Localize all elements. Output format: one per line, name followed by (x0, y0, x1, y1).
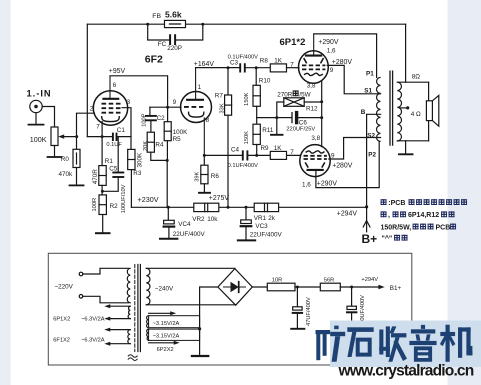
tube U1b 6F2 triode section (181, 68, 212, 156)
svg-text:R2: R2 (110, 203, 119, 210)
left margin band (0, 0, 11, 385)
node: cathode/C6 junction (320, 116, 323, 119)
svg-text:C4: C4 (231, 146, 240, 153)
capacitor VC3 22UF/400V (245, 207, 247, 220)
svg-text:100P: 100P (141, 113, 147, 126)
wire: cathode riser between tubes (321, 81, 323, 147)
wire: cathode line pin7 down (101, 122, 103, 166)
node: FB right junction (201, 23, 204, 26)
svg-text:7: 7 (290, 61, 294, 68)
transformer core dashed (134, 265, 136, 352)
wire: S1 tap stub (378, 93, 380, 95)
svg-text:C5: C5 (109, 166, 118, 173)
svg-text:47UF/400V: 47UF/400V (306, 297, 312, 326)
svg-text:1: 1 (198, 84, 202, 91)
wire: 10R to 56R (295, 286, 320, 288)
wire: +230V rail (131, 206, 366, 208)
svg-text:1,6: 1,6 (327, 47, 336, 54)
transformer T2 HV secondary winding (146, 268, 150, 304)
capacitor C2 100P (149, 107, 151, 115)
svg-text:100R: 100R (92, 198, 98, 212)
svg-text:1K: 1K (274, 145, 283, 152)
wire: pot wiper arm (62, 136, 77, 138)
svg-text:22UF/400V: 22UF/400V (250, 232, 283, 239)
svg-text:100UF/10V: 100UF/10V (121, 184, 127, 213)
svg-text:7: 7 (96, 124, 100, 131)
wire: HV bottom lead (146, 304, 235, 306)
svg-text:R12: R12 (306, 105, 318, 112)
svg-text:300K: 300K (136, 152, 143, 168)
resistor R9 1K (270, 151, 286, 159)
wire: plate rail to P1 (314, 34, 377, 78)
wire: screen to S1 (327, 65, 378, 93)
wire: R3 bottom to +230V rail (130, 170, 132, 208)
note text line 3 (381, 224, 457, 232)
svg-text:1.-IN: 1.-IN (27, 88, 52, 98)
node: 4 ohm tap dot (406, 106, 409, 109)
ground (PSU) (192, 355, 208, 357)
node: heater centre tap (198, 327, 201, 330)
capacitor 120UF/400V (351, 287, 353, 306)
wire: R2 bottom (102, 215, 104, 233)
svg-text:56R: 56R (324, 278, 334, 284)
svg-text:www.crystalradio.cn: www.crystalradio.cn (338, 363, 474, 380)
resistor 56R (320, 283, 340, 291)
transformer T2 heater winding 1 (128, 306, 130, 318)
wire: 3.15V arrow top (149, 312, 172, 314)
svg-text::PCB: :PCB (388, 200, 405, 207)
watermark logo char KUANG (316, 326, 346, 362)
svg-text:R0: R0 (61, 156, 70, 163)
svg-text:P1: P1 (366, 71, 374, 78)
ground (VC4) (160, 238, 177, 240)
wire: R0 bottom (76, 168, 78, 185)
speaker LS (428, 82, 430, 141)
svg-text:R6: R6 (211, 173, 220, 180)
node: VC4 junction (167, 206, 170, 209)
svg-text:6P1X2: 6P1X2 (53, 317, 70, 323)
wire: R12 leads (277, 102, 322, 118)
wire: ground drop (276, 118, 278, 134)
svg-text:/5W: /5W (299, 91, 310, 98)
note text line 4 (382, 235, 408, 243)
svg-text:B+: B+ (362, 232, 378, 246)
pin 8 cathode lead (203, 117, 205, 155)
svg-text:470R: 470R (92, 169, 99, 185)
grid dashes (184, 106, 203, 108)
node: FB left junction (146, 23, 149, 26)
svg-text:2: 2 (90, 106, 94, 113)
node: VC3 junction (245, 206, 248, 209)
resistor R8 1K (270, 64, 286, 72)
wire: 3.15V arrow bottom (149, 342, 176, 344)
tube V2 lower 6P1 (300, 145, 330, 177)
svg-text:VC4: VC4 (178, 221, 191, 228)
ground (R0) (70, 184, 84, 186)
ground (jack) (35, 113, 37, 124)
svg-text:10k: 10k (207, 216, 218, 223)
svg-text:6F2: 6F2 (145, 54, 163, 66)
svg-text:20K: 20K (143, 141, 149, 151)
resistor FB 5.6k (165, 20, 186, 27)
wire: R7 column down to +275V rail (227, 115, 229, 207)
resistor R6 39K (203, 155, 205, 165)
wire: cathodyne output line (204, 154, 300, 156)
wire: bridge + output (252, 286, 267, 288)
box label 3.15V winding A (149, 316, 200, 328)
resistor 10R (267, 283, 295, 291)
svg-text:+230V: +230V (138, 195, 159, 204)
svg-text:5.6k: 5.6k (165, 9, 182, 19)
wire: B1+ arrow (378, 285, 384, 289)
wire: FB/cathode/C1 lead (87, 136, 131, 138)
svg-text:3,8: 3,8 (307, 83, 316, 90)
wire: R6 bottom (203, 184, 205, 192)
screen dashes row (302, 64, 325, 66)
wire: S2 tap stub (378, 137, 380, 139)
node: 47UF junction (296, 286, 299, 289)
svg-text:~6.3V/2A: ~6.3V/2A (81, 317, 105, 323)
svg-text:220UF/25V: 220UF/25V (286, 127, 315, 133)
screen dashes row (304, 158, 327, 160)
svg-text:1,6: 1,6 (302, 181, 311, 188)
svg-text:4 Ω: 4 Ω (411, 111, 421, 118)
wire: plate to P2 (316, 141, 379, 187)
svg-text:8: 8 (206, 117, 210, 124)
tube U1a 6F2 pentode section (93, 76, 127, 125)
svg-text:0.1UF/400V: 0.1UF/400V (228, 163, 259, 169)
svg-text:C2: C2 (157, 115, 166, 122)
core (390, 71, 393, 146)
svg-text:+280V: +280V (332, 59, 353, 66)
svg-text:3,8: 3,8 (311, 135, 320, 142)
svg-text:R8: R8 (260, 57, 269, 64)
svg-text:+95V: +95V (109, 68, 126, 75)
svg-text:R3: R3 (133, 170, 142, 177)
node: R11/C4/R9 junction (255, 154, 258, 157)
node: R4/R5 bottom junction (166, 159, 169, 162)
svg-text:10R: 10R (272, 277, 282, 283)
node: R6 top junction (203, 154, 206, 157)
cathode squiggle (306, 151, 325, 153)
resistor R4 20K (147, 132, 154, 152)
svg-text:R1: R1 (105, 158, 114, 165)
resistor R10 150K (255, 68, 257, 86)
svg-text:S2: S2 (367, 133, 375, 140)
svg-text:+294V: +294V (337, 211, 358, 218)
svg-text:39K: 39K (195, 171, 201, 181)
wire: C6 lead left (277, 117, 292, 119)
potentiometer 100K (51, 127, 58, 146)
svg-text:1K: 1K (274, 58, 283, 65)
svg-text:C1: C1 (117, 127, 126, 134)
node: B+ rail junction (365, 205, 368, 208)
svg-text:6P1*2: 6P1*2 (280, 37, 306, 48)
svg-text:VR1: VR1 (254, 215, 267, 222)
note text line 1 (381, 199, 468, 207)
wire: R5 bottom to +230V rail (166, 141, 168, 161)
pin 1,6 plate stub (313, 34, 315, 55)
capacitor FC 220P (170, 35, 175, 44)
node: cathode C1 junction (101, 135, 104, 138)
node: cathode/R12 junction (320, 100, 323, 103)
svg-text:C6: C6 (299, 119, 308, 126)
watermark logo char JI (440, 325, 473, 362)
transformer T2 3.15V winding A coil (147, 316, 149, 328)
wire: B+ drop with arrow (366, 207, 368, 232)
resistor R1 470R (99, 166, 106, 186)
svg-text:~3.15V/2A: ~3.15V/2A (153, 321, 180, 327)
svg-text:150K: 150K (244, 131, 250, 144)
node: wiper junction (75, 135, 78, 138)
svg-text:+275V: +275V (209, 195, 230, 202)
svg-text:9: 9 (173, 99, 177, 106)
pin 6 plate stub (109, 76, 111, 99)
svg-text:2k: 2k (268, 215, 276, 222)
resistor R12 270R/5W (284, 98, 304, 107)
wire: bridge negative to ground (200, 287, 218, 355)
transformer T2 heater winding 2 (128, 330, 130, 344)
terminal AC line top (79, 272, 83, 276)
grid dashes row1 (102, 103, 121, 105)
svg-text:7: 7 (290, 149, 294, 156)
watermark logo char SHOU (379, 326, 407, 361)
wire: HV top lead (146, 267, 235, 269)
ground (R6) (199, 192, 210, 194)
svg-text:S1: S1 (364, 88, 372, 95)
svg-text:VC3: VC3 (255, 223, 268, 230)
svg-text:+290V: +290V (318, 39, 339, 46)
beam plates (304, 58, 324, 63)
svg-text:+294V: +294V (361, 277, 378, 283)
ground (cathode network) (271, 134, 283, 136)
beam plates (305, 162, 325, 167)
plate bar (305, 55, 322, 57)
capacitor 47UF/400V (296, 287, 298, 307)
transformer T2 primary winding (127, 268, 130, 302)
wire: jack to pot (42, 107, 54, 128)
pin 1 plate stub (195, 68, 197, 100)
wire: secondary bottom (397, 140, 428, 142)
svg-text:VR2: VR2 (192, 216, 205, 223)
wire: down to +230V rail (166, 160, 168, 207)
svg-text:R5: R5 (173, 136, 182, 143)
svg-text:~3.15V/2A: ~3.15V/2A (153, 334, 180, 340)
wire: R4 bottom to +230V node (151, 152, 167, 160)
capacitor C3 0.1UF/400V (240, 64, 245, 71)
bridge rectifier D1 (218, 269, 252, 306)
core squiggle symbol (128, 355, 137, 361)
watermark background block (330, 321, 481, 368)
resistor R3 300K (128, 149, 135, 169)
note text line 2 (381, 211, 455, 219)
svg-text:PCB: PCB (436, 224, 451, 231)
svg-text:R11: R11 (262, 127, 274, 134)
plate bar (102, 98, 119, 100)
grid dashes row (302, 68, 325, 70)
svg-text:100K: 100K (30, 135, 47, 144)
primary winding (377, 77, 381, 141)
wire: feedback drop from top to 8ohm tap (405, 24, 407, 82)
terminal AC line bottom (79, 295, 83, 299)
svg-text:P2: P2 (368, 152, 376, 159)
node: +275V rail junction (227, 206, 230, 209)
capacitor C1 0.1UF (113, 134, 117, 140)
resistor R11 150K (253, 124, 260, 144)
svg-text:+290V: +290V (317, 180, 338, 187)
transformer T1 output (377, 71, 402, 146)
svg-text:6P2X2: 6P2X2 (157, 347, 174, 353)
cathode cup (189, 112, 204, 118)
grid dashes row2 (102, 107, 121, 109)
ground (R2) (96, 232, 110, 234)
wire: +95V rail (110, 76, 168, 107)
wire: AC leads (83, 268, 129, 274)
wire: R11 bottom (256, 145, 258, 156)
resistor R5 100K (167, 107, 169, 122)
watermark logo char SHI (347, 327, 373, 357)
potentiometer VR2 100k (194, 203, 219, 211)
wire: pin3 screen column to R3 (122, 108, 131, 150)
secondary winding (397, 82, 401, 141)
node: R1 bottom junction (101, 185, 103, 195)
right margin band (448, 0, 481, 385)
ground (pot) (48, 156, 62, 158)
svg-text:0.1UF: 0.1UF (106, 142, 122, 148)
svg-text:150R/5W,: 150R/5W, (381, 224, 412, 231)
capacitor C6 220UF/25V (291, 113, 293, 123)
node: C3/R8/R10 junction (255, 66, 258, 69)
cathode squiggle (304, 73, 323, 75)
wire: B centre tap (367, 114, 381, 207)
svg-text:6: 6 (113, 82, 117, 89)
node: 120UF junction (350, 286, 353, 289)
wire: R10 bottom to R11 top (256, 106, 258, 124)
svg-text:B: B (361, 109, 366, 116)
wire: global feedback top run (87, 23, 405, 25)
wire: screen to S2 (329, 138, 378, 160)
svg-text:9: 9 (331, 152, 335, 159)
wire: divider mid tap (257, 117, 277, 119)
box label 3.15V winding B (149, 329, 200, 340)
svg-text:470k: 470k (59, 171, 74, 178)
wire: secondary top 8ohm line (397, 81, 428, 83)
power supply enclosure box (48, 253, 412, 365)
wire: 4 ohm tap (400, 107, 408, 109)
svg-text:270R: 270R (277, 91, 293, 98)
svg-text:150K: 150K (244, 92, 250, 105)
svg-text:+164V: +164V (194, 61, 215, 68)
svg-text:9: 9 (330, 67, 334, 74)
transformer T2 3.15V winding B coil (147, 329, 149, 340)
resistor R0 470k (73, 149, 80, 167)
node: plate/R5 junction (166, 106, 169, 109)
svg-text:~240V: ~240V (155, 286, 174, 293)
ground (47UF) (291, 328, 304, 330)
node: C6/ground junction (275, 116, 278, 119)
wire: R8 to upper 6P1 grid (287, 67, 300, 69)
svg-text:100K: 100K (173, 129, 189, 136)
watermark logo char YIN (409, 325, 436, 362)
svg-text:~6.3V/2A: ~6.3V/2A (81, 338, 105, 344)
wire: feedback drop to tube1 cathode (86, 24, 88, 136)
plate bar (307, 169, 324, 171)
ground (VC3) (238, 239, 255, 241)
svg-text:6F1X2: 6F1X2 (53, 338, 70, 344)
svg-text:R4: R4 (155, 141, 164, 148)
wire: FC branch (148, 24, 203, 40)
svg-text:B1+: B1+ (390, 285, 402, 292)
svg-text:FB: FB (152, 13, 161, 20)
wire: heater1 leads with arrows (107, 306, 130, 318)
svg-text:6P14,R12: 6P14,R12 (408, 212, 439, 219)
capacitor C4 0.1UF/400V (243, 151, 248, 159)
wire: heater2 leads with arrows (107, 330, 130, 344)
plate bar (186, 99, 204, 101)
capacitor C5 100UF/10V (117, 137, 119, 172)
svg-text:33K: 33K (219, 103, 225, 113)
resistor R2 100R (99, 195, 106, 215)
svg-text:~220V: ~220V (55, 283, 74, 290)
cathode cup (102, 116, 120, 122)
svg-text:,: , (388, 212, 390, 219)
tube V1 upper 6P1 (299, 34, 329, 83)
input jack J1 (30, 100, 42, 112)
svg-text:"^": "^" (382, 235, 393, 243)
svg-text:8Ω: 8Ω (412, 73, 421, 80)
svg-text:22UF/400V: 22UF/400V (173, 231, 206, 238)
grid dashes row (304, 155, 327, 157)
wire: grid of tube1 to wiper node and R0 (77, 113, 95, 149)
grid dashes row3 (102, 112, 121, 114)
ground (secondary) (405, 141, 407, 154)
wire: 56R to output (340, 286, 378, 288)
svg-text:FC: FC (158, 41, 167, 48)
wire: plate node line to triode grid (150, 106, 181, 108)
svg-text:220P: 220P (167, 45, 182, 52)
svg-text:R10: R10 (259, 78, 271, 85)
wire: pot bottom (54, 146, 56, 157)
potentiometer VR1 2k (254, 203, 278, 211)
node: R7 top junction (227, 66, 230, 69)
capacitor VC4 22UF/400V (167, 207, 169, 220)
svg-text:3: 3 (127, 99, 131, 106)
svg-text:R9: R9 (261, 145, 270, 152)
svg-text:+280V: +280V (332, 162, 353, 169)
svg-text:C3: C3 (230, 59, 239, 66)
svg-text:R7: R7 (215, 93, 224, 100)
resistor R7 33K (227, 68, 229, 95)
wire: +164V rail (196, 67, 240, 69)
